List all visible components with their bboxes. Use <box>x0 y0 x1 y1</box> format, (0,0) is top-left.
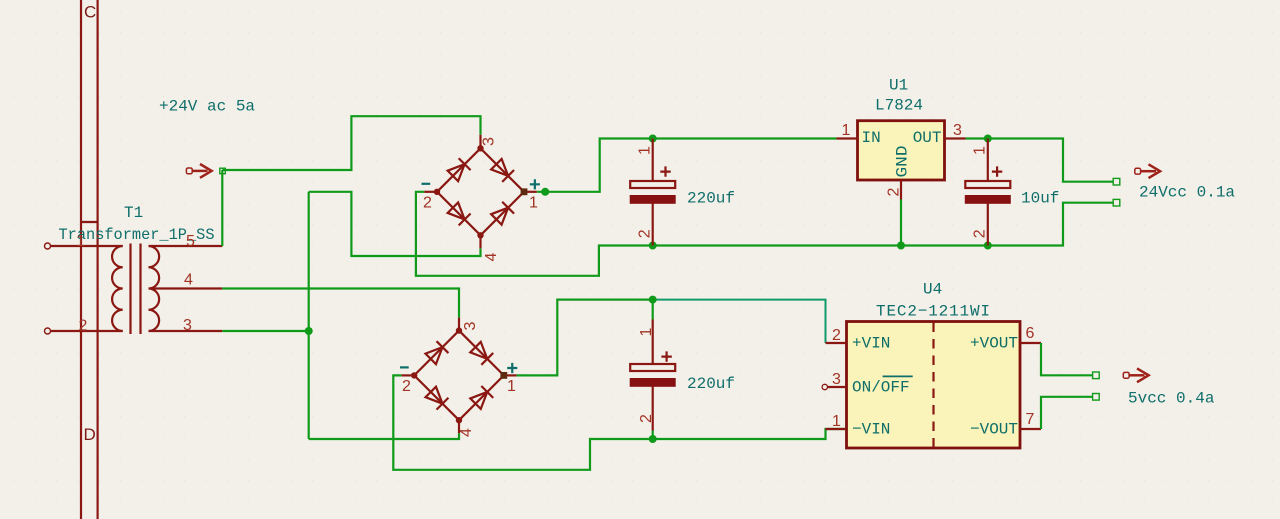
svg-text:TEC2−1211WI: TEC2−1211WI <box>876 303 990 321</box>
regulator U1 L7824 <box>837 77 966 200</box>
svg-text:24Vcc 0.1a: 24Vcc 0.1a <box>1139 184 1235 202</box>
capacitor C3 top plate <box>965 181 1010 188</box>
wire: bridge1 + output to top rail and U1 IN <box>537 139 837 192</box>
wire: C2 top to U4 +VIN (teal tinted) <box>653 300 826 343</box>
bridge B1 diamond edges <box>437 148 524 235</box>
capacitor C3 pin 1 lead <box>987 139 989 182</box>
wire: C2 top junction down to capacitor pin <box>652 300 654 320</box>
svg-text:1: 1 <box>637 146 654 155</box>
wire: bridge2 - output to lower rail and U4 -VIN <box>393 375 846 469</box>
capacitor C1 pin 2 lead <box>652 203 654 245</box>
input wire dangling end square <box>220 168 226 174</box>
24Vcc output wire end square upper <box>1113 178 1120 185</box>
diode bridge B2 <box>400 318 517 437</box>
svg-text:3: 3 <box>481 137 498 146</box>
U4 body box <box>847 322 1021 449</box>
U1 pin 2 stub <box>900 180 902 200</box>
bridge B1 vertex dot bottom <box>477 232 483 238</box>
5vcc output wire end square lower <box>1093 394 1100 401</box>
transformer T1 secondary winding <box>149 246 160 331</box>
svg-text:5: 5 <box>186 233 195 250</box>
bridge B2 vertex dot left <box>411 372 417 378</box>
bridge B2 pin 4 stub <box>458 420 460 433</box>
transformer T1 primary winding <box>112 246 123 331</box>
sheet frame border line inner <box>96 0 98 519</box>
bridge B1 minus sign <box>422 183 431 185</box>
bridge B1 diode D lower-right <box>490 202 514 226</box>
junction on bridge1 + output wire <box>541 188 549 196</box>
svg-text:3: 3 <box>462 322 479 331</box>
capacitor C1 plus sign <box>660 166 670 176</box>
svg-text:6: 6 <box>1026 325 1035 342</box>
U4 internal dashed divider <box>932 323 934 448</box>
junction at U1 GND on bottom rail <box>897 242 905 250</box>
wire: U1 OUT to 24Vcc upper output <box>966 139 1114 182</box>
capacitor C2 pin 2 lead <box>652 386 654 430</box>
svg-text:1: 1 <box>507 378 516 395</box>
svg-text:2: 2 <box>423 195 432 212</box>
transformer T1 secondary pin 4 centre-tap lead <box>150 287 222 289</box>
bridge B2 pin 1 stub <box>504 374 517 376</box>
wire: C2 bottom pin to lower rail <box>652 431 654 440</box>
bridge B1 pin 4 stub <box>479 235 481 248</box>
svg-text:7: 7 <box>1026 411 1035 428</box>
capacitor C1 bottom plate <box>630 196 675 204</box>
capacitor C2 plus sign <box>661 351 671 361</box>
svg-text:3: 3 <box>953 122 962 139</box>
bridge B2 diamond edges <box>414 331 504 421</box>
svg-text:IN: IN <box>862 129 881 147</box>
wire: bridge1 - output to bottom rail of top section <box>416 192 1113 276</box>
svg-text:+VOUT: +VOUT <box>970 335 1018 353</box>
capacitor C2 top plate <box>630 364 675 371</box>
U1 pin 1 stub <box>837 137 858 139</box>
bridge B2 diode D lower-left <box>425 386 449 410</box>
svg-text:1: 1 <box>638 328 655 337</box>
5vcc output wire end square upper <box>1093 372 1100 379</box>
wire: input net from arrow to bridge1 pin 3 <box>222 116 480 170</box>
svg-text:C: C <box>84 3 96 22</box>
U4 pin 1 stub <box>826 428 847 430</box>
svg-text:1: 1 <box>972 146 989 155</box>
svg-text:+VIN: +VIN <box>852 335 890 353</box>
bridge B1 vertex dot top <box>477 145 483 151</box>
svg-text:2: 2 <box>637 229 654 238</box>
junction at C3 bottom on bottom rail <box>984 242 992 250</box>
junction at C1 top <box>649 135 657 143</box>
wire: branch to bridge1 pin 4 <box>309 192 481 256</box>
bridge B1 pin 2 stub <box>424 191 437 193</box>
junction at C1 bottom <box>649 242 657 250</box>
capacitor C1 top plate <box>630 181 675 188</box>
svg-text:2: 2 <box>79 318 88 335</box>
capacitor C1 pin 1 lead <box>652 139 654 182</box>
svg-text:L7824: L7824 <box>875 97 923 115</box>
sheet frame border line left <box>80 0 82 519</box>
capacitor C2 pin 1 lead <box>652 320 654 365</box>
wire: riser from input net down to transformer pin 5 <box>221 170 223 246</box>
bridge B2 diode D upper-left <box>425 341 449 365</box>
svg-text:−VIN: −VIN <box>852 421 890 439</box>
svg-text:ON/OFF: ON/OFF <box>852 379 910 397</box>
junction at C3 top <box>984 135 992 143</box>
svg-text:−VOUT: −VOUT <box>970 421 1018 439</box>
diode bridge B1 <box>422 135 540 262</box>
capacitor C3 plus sign <box>992 166 1002 176</box>
svg-text:U4: U4 <box>923 281 942 299</box>
wire: bridge2 + output to C2 top <box>517 300 653 376</box>
svg-text:1: 1 <box>842 122 851 139</box>
svg-text:10uf: 10uf <box>1021 190 1059 208</box>
24Vcc connector arrow <box>1135 164 1160 178</box>
svg-text:3: 3 <box>183 317 192 334</box>
transformer T1 core <box>131 244 141 335</box>
svg-text:5vcc 0.4a: 5vcc 0.4a <box>1128 390 1215 408</box>
transformer T1 secondary pin 3 lead <box>149 330 223 332</box>
bridge B2 pin 3 stub <box>458 318 460 331</box>
U4 pin 6 stub <box>1020 342 1041 344</box>
bridge B1 pin 1 stub <box>524 191 537 193</box>
bridge B1 vertex dot left <box>434 189 440 195</box>
capacitor C3 10uf <box>965 139 1059 246</box>
bridge B1 diode D upper-right <box>490 158 514 182</box>
svg-text:3: 3 <box>832 371 841 388</box>
svg-text:2: 2 <box>886 188 903 197</box>
svg-text:1: 1 <box>76 233 85 250</box>
svg-text:U1: U1 <box>889 77 908 95</box>
capacitor C3 bottom plate <box>965 196 1010 204</box>
sheet frame row divider tick <box>81 221 98 223</box>
svg-text:T1: T1 <box>124 204 143 222</box>
bridge B1 pin 3 stub <box>479 135 481 149</box>
svg-text:220uf: 220uf <box>687 375 735 393</box>
bridge B2 output square right <box>500 372 507 379</box>
wire: U4 -VOUT to 5vcc lower output <box>1041 397 1093 429</box>
dc-dc converter U4 TEC2-1211WI <box>822 281 1041 449</box>
capacitor C2 220uf lower section <box>630 320 735 431</box>
U4 pin 2 stub <box>826 342 847 344</box>
bridge B2 diode D lower-right <box>470 386 494 410</box>
U4 pin 7 stub <box>1020 428 1041 430</box>
transformer T1 secondary pin 5 lead <box>149 245 223 247</box>
svg-text:D: D <box>84 425 96 444</box>
svg-text:2: 2 <box>832 327 841 344</box>
svg-text:4: 4 <box>184 272 193 289</box>
svg-text:OUT: OUT <box>913 129 942 147</box>
svg-text:220uf: 220uf <box>687 190 735 208</box>
svg-text:4: 4 <box>483 253 500 262</box>
capacitor C3 pin 2 lead <box>987 203 989 245</box>
transformer T1 primary pin 1 lead with open circle <box>45 243 123 249</box>
wire: U4 +VOUT to 5vcc upper output <box>1041 343 1093 375</box>
bridge B2 vertex dot top <box>456 327 462 333</box>
wire: U1 pin 2 to bottom rail <box>900 200 902 246</box>
junction at transformer pin 3 vertical bus <box>305 327 313 335</box>
bridge B1 output square right <box>521 188 528 195</box>
bridge B2 pin 2 stub <box>401 374 414 376</box>
svg-text:4: 4 <box>458 428 475 437</box>
junction at C2 bottom on lower rail <box>649 435 657 443</box>
bridge B2 plus sign <box>507 363 517 373</box>
input connector arrow <box>186 164 211 178</box>
bridge B1 plus sign <box>530 179 540 189</box>
U1 pin 3 stub <box>945 137 966 139</box>
wire: transformer pin 4 to bridge2 pin 3 <box>222 289 459 318</box>
bridge B1 diode D lower-left <box>447 202 471 226</box>
svg-text:GND: GND <box>894 146 912 178</box>
capacitor C2 bottom plate <box>630 379 675 387</box>
wire: bottom branch to bridge2 pin 4 <box>309 433 459 439</box>
svg-text:2: 2 <box>402 378 411 395</box>
svg-text:2: 2 <box>638 414 655 423</box>
svg-text:1: 1 <box>529 195 538 212</box>
bridge B2 minus sign <box>400 366 409 368</box>
U4 pin 3 stub with open circle <box>822 384 846 389</box>
svg-text:+24V ac 5a: +24V ac 5a <box>159 98 255 116</box>
U1 body box <box>858 121 945 180</box>
bridge B2 diode D upper-right <box>470 341 494 365</box>
junction at C2 top <box>649 296 657 304</box>
svg-text:1: 1 <box>832 413 841 430</box>
svg-text:2: 2 <box>972 229 989 238</box>
24Vcc output wire end square lower <box>1113 199 1120 206</box>
bridge B1 diode D upper-left <box>447 158 471 182</box>
wire: vertical net joining bridge1 pin 4 and bridge2 pin 4 <box>308 192 310 439</box>
capacitor C1 220uf top section <box>630 139 735 246</box>
wire: transformer pin 3 to vertical bus <box>222 330 308 332</box>
bridge B2 vertex dot bottom <box>456 417 462 423</box>
transformer T1 primary pin 2 lead with open circle <box>45 328 123 334</box>
5vcc connector arrow <box>1123 368 1148 382</box>
